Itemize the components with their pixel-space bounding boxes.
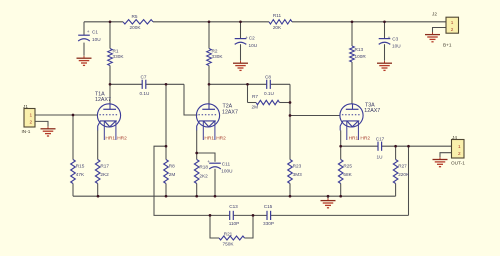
junction [289, 114, 292, 117]
svg-text:2M: 2M [252, 104, 259, 109]
wire [208, 66, 210, 105]
wire [72, 115, 74, 160]
connector J2 [432, 12, 459, 48]
resistor R25 [338, 160, 352, 184]
svg-text:R21: R21 [224, 232, 233, 237]
svg-text:100U: 100U [221, 169, 233, 174]
wire [154, 146, 210, 215]
wire [248, 102, 257, 104]
wire [395, 146, 397, 159]
svg-text:0.1U: 0.1U [264, 91, 275, 96]
wire [292, 21, 446, 23]
junction [289, 101, 292, 104]
resistor R1 [108, 49, 125, 66]
wire [384, 44, 386, 61]
svg-text:R25: R25 [343, 163, 352, 168]
capacitor C3 [379, 35, 402, 48]
svg-text:330P: 330P [263, 221, 274, 226]
svg-text:HR1: HR1 [349, 135, 359, 141]
junction [239, 20, 242, 23]
resistor R2 [207, 49, 224, 66]
svg-text:1U: 1U [377, 154, 384, 159]
wire [280, 102, 291, 104]
wire [210, 214, 230, 216]
pin HR1 [105, 135, 115, 141]
svg-text:R18: R18 [199, 164, 208, 169]
resistor R7 [252, 94, 280, 110]
svg-text:C1: C1 [92, 30, 98, 35]
capacitor C11 [207, 159, 233, 174]
wire [83, 22, 85, 35]
junction [383, 20, 386, 23]
svg-text:HR1: HR1 [105, 135, 115, 141]
resistor R15 [71, 160, 85, 184]
resistor R21 [219, 232, 245, 247]
junction [165, 83, 168, 86]
wire [289, 184, 291, 197]
svg-text:2: 2 [458, 151, 461, 156]
ground [425, 32, 440, 41]
svg-text:R15: R15 [76, 163, 85, 168]
wire [240, 22, 242, 39]
wire [153, 21, 269, 23]
svg-text:12AX7: 12AX7 [222, 109, 238, 115]
resistor R13 [350, 46, 367, 62]
resistor R17 [95, 160, 109, 184]
svg-text:1: 1 [458, 144, 461, 149]
svg-text:+: + [87, 29, 90, 34]
junction [208, 20, 211, 23]
junction [407, 145, 410, 148]
svg-text:12AX7: 12AX7 [95, 97, 111, 103]
wire [109, 66, 111, 105]
wire [270, 83, 290, 85]
svg-text:330K: 330K [212, 54, 224, 59]
svg-text:47K: 47K [76, 172, 85, 177]
svg-text:68K: 68K [343, 172, 352, 177]
svg-text:R13: R13 [355, 47, 364, 52]
capacitor C13 [229, 204, 240, 226]
svg-text:20K: 20K [273, 25, 282, 30]
capacitor C1 [78, 29, 101, 42]
wire [97, 130, 99, 159]
svg-text:C13: C13 [229, 204, 238, 209]
wire [196, 184, 198, 197]
connector J1 [22, 104, 36, 134]
svg-text:2K2: 2K2 [100, 172, 109, 177]
svg-text:OUT-1: OUT-1 [451, 160, 465, 165]
pin HR1 [204, 135, 214, 141]
wire [351, 62, 353, 104]
svg-text:100R: 100R [355, 54, 367, 59]
wire [197, 153, 215, 162]
svg-text:R7: R7 [252, 94, 258, 99]
wire [433, 28, 447, 34]
wire [351, 22, 353, 46]
wire [341, 145, 378, 147]
wire [196, 130, 198, 159]
junction [109, 20, 112, 23]
svg-text:R17: R17 [100, 163, 109, 168]
junction [327, 195, 330, 198]
wire [233, 214, 253, 216]
wire [109, 22, 111, 49]
wire [110, 83, 142, 85]
junction [109, 83, 112, 86]
svg-text:R8: R8 [169, 163, 175, 168]
svg-text:HR2: HR2 [360, 135, 370, 141]
svg-text:HR2: HR2 [216, 135, 226, 141]
junction [165, 195, 168, 198]
wire [35, 121, 48, 126]
junction [339, 145, 342, 148]
pin HR2 [216, 135, 226, 141]
svg-text:2M: 2M [169, 172, 176, 177]
svg-text:R5: R5 [132, 14, 138, 19]
svg-text:C7: C7 [141, 74, 147, 79]
resistor R8 [164, 160, 176, 184]
wire [245, 215, 254, 238]
svg-text:J2: J2 [432, 12, 437, 17]
triode T3A [340, 103, 380, 140]
wire [214, 169, 216, 196]
svg-text:1: 1 [30, 112, 33, 117]
wire [35, 114, 98, 116]
ground [433, 157, 448, 166]
triode T1A [95, 91, 121, 140]
wire [327, 196, 329, 198]
svg-text:R27: R27 [398, 163, 407, 168]
ground [321, 198, 336, 207]
wire [340, 184, 342, 197]
wire [340, 130, 342, 146]
junction [246, 83, 249, 86]
svg-text:3M3: 3M3 [293, 172, 303, 177]
resistor R18 [194, 160, 208, 184]
wire [384, 22, 386, 39]
svg-text:R2: R2 [212, 49, 218, 54]
wire [408, 146, 410, 215]
capacitor C7 [140, 74, 151, 95]
ground [77, 56, 92, 65]
svg-text:+: + [207, 159, 210, 164]
wire [340, 146, 342, 159]
junction [165, 145, 168, 148]
wire [146, 83, 166, 85]
wire [209, 83, 267, 85]
svg-text:750K: 750K [223, 242, 235, 247]
resistor R27 [393, 160, 410, 184]
pin HR2 [360, 135, 370, 141]
svg-text:110P: 110P [229, 221, 240, 226]
svg-text:10U: 10U [392, 43, 401, 48]
junction [195, 152, 198, 155]
svg-text:2: 2 [451, 27, 454, 32]
wire [208, 22, 210, 49]
pin HR1 [349, 135, 359, 141]
svg-text:2K2: 2K2 [199, 173, 208, 178]
pin HR2 [117, 135, 127, 141]
wire [271, 214, 409, 216]
svg-text:IN-1: IN-1 [22, 129, 31, 134]
wire [165, 184, 167, 197]
wire [253, 214, 267, 216]
wire [84, 21, 123, 23]
wire [73, 195, 396, 197]
svg-text:10U: 10U [249, 43, 258, 48]
junction [339, 195, 342, 198]
svg-text:R23: R23 [293, 163, 302, 168]
wire [289, 84, 291, 159]
wire [395, 184, 397, 197]
junction [289, 195, 292, 198]
wire [72, 184, 74, 197]
junction [252, 214, 255, 217]
wire [184, 84, 198, 115]
svg-text:220K: 220K [398, 172, 410, 177]
svg-text:C8: C8 [265, 74, 271, 79]
capacitor C15 [263, 204, 274, 226]
wire [210, 215, 219, 238]
svg-text:12AX7: 12AX7 [364, 108, 380, 114]
ground [377, 61, 392, 70]
junction [97, 195, 100, 198]
svg-text:C17: C17 [376, 136, 385, 141]
junction [394, 145, 397, 148]
svg-text:+: + [388, 35, 391, 40]
wire [83, 43, 85, 56]
capacitor C17 [376, 136, 385, 159]
triode T2A [196, 103, 238, 140]
svg-text:0.1U: 0.1U [140, 91, 151, 96]
wire [97, 184, 99, 197]
svg-text:C2: C2 [249, 36, 255, 41]
wire [290, 115, 340, 117]
svg-text:C11: C11 [222, 161, 231, 166]
capacitor C2 [235, 35, 258, 48]
ground [233, 61, 248, 70]
capacitor C8 [264, 74, 275, 96]
junction [208, 83, 211, 86]
svg-text:R1: R1 [113, 49, 119, 54]
svg-text:1: 1 [451, 20, 454, 25]
wire [382, 145, 452, 147]
svg-text:HR2: HR2 [117, 135, 127, 141]
junction [209, 214, 212, 217]
wire [240, 44, 242, 61]
ground [41, 127, 56, 136]
svg-text:10U: 10U [92, 37, 101, 42]
resistor R11 [269, 13, 292, 30]
svg-text:2: 2 [30, 119, 33, 124]
svg-text:200K: 200K [130, 25, 142, 30]
svg-text:R11: R11 [273, 13, 282, 18]
svg-text:C3: C3 [392, 36, 398, 41]
wire [166, 83, 184, 85]
junction [72, 114, 75, 117]
junction [214, 195, 217, 198]
svg-text:330K: 330K [113, 54, 125, 59]
svg-text:B+1: B+1 [443, 43, 452, 48]
wire [165, 84, 167, 159]
junction [351, 20, 354, 23]
wire [247, 84, 249, 102]
svg-text:HR1: HR1 [204, 135, 214, 141]
resistor R5 [123, 14, 153, 30]
junction [195, 195, 198, 198]
wire [440, 153, 452, 158]
connector J4 [451, 135, 465, 166]
svg-text:C15: C15 [264, 204, 273, 209]
resistor R23 [288, 160, 302, 184]
